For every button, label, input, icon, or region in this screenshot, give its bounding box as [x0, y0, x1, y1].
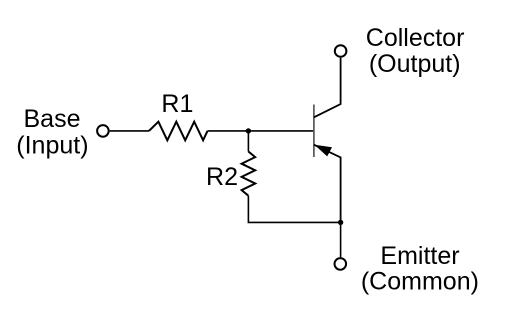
wire junction to R2	[247, 131, 249, 152]
wire junction to emitter terminal	[340, 222, 342, 257]
wire R2 bottom to corner	[248, 196, 340, 223]
terminal Collector (Output)	[335, 45, 347, 57]
transistor Q1 emitter lead	[314, 145, 341, 223]
resistor R1	[149, 122, 208, 141]
svg-text:Collector: Collector	[366, 24, 465, 52]
svg-text:(Common): (Common)	[361, 268, 479, 296]
svg-text:R2: R2	[206, 163, 238, 191]
terminal Emitter (Common)	[335, 258, 347, 270]
transistor Q1 collector lead	[314, 58, 341, 118]
node Emitter label	[361, 242, 479, 296]
transistor Q1 emitter arrow (PNP)	[314, 145, 332, 157]
junction node at R2 top	[246, 128, 251, 133]
node Base label	[16, 105, 88, 159]
svg-text:(Input): (Input)	[16, 131, 88, 159]
svg-text:(Output): (Output)	[369, 50, 461, 78]
node Collector label	[366, 24, 465, 78]
transistor Q1 base bar	[313, 105, 315, 158]
resistor R2	[242, 152, 256, 196]
svg-text:Emitter: Emitter	[380, 242, 459, 270]
svg-text:R1: R1	[161, 90, 193, 118]
svg-text:Base: Base	[24, 105, 81, 133]
wire R1 to transistor base	[208, 130, 314, 132]
junction node at emitter bottom	[338, 220, 343, 225]
wire base terminal to R1	[110, 130, 149, 132]
terminal Base (Input)	[97, 125, 109, 137]
